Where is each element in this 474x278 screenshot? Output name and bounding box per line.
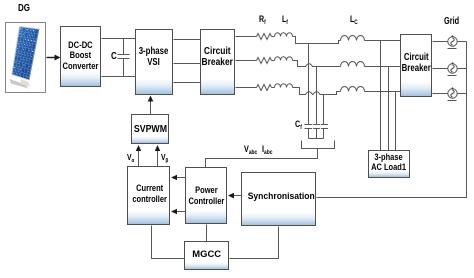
wire grid feedback right bus down bbox=[317, 42, 467, 198]
label C (dc-link capacitor) bbox=[111, 51, 117, 62]
wire phase B jog with hop over phase-A tap bbox=[293, 61, 341, 67]
box SVPWM bbox=[131, 114, 169, 144]
wire phase B to CB2 bbox=[365, 66, 401, 68]
capacitor C bbox=[118, 39, 130, 77]
label Cf bbox=[295, 119, 302, 129]
box 3-phase AC Load1 bbox=[368, 150, 410, 178]
grid ac source A bbox=[448, 35, 458, 48]
wire power controller to MGCC bbox=[206, 225, 208, 242]
wire VSI to CB1 phase a bbox=[174, 39, 201, 41]
inductor Lf phase C bbox=[275, 84, 293, 88]
box synchronisation bbox=[241, 172, 316, 226]
wire+arrow Valpha current controller to SVPWM bbox=[136, 145, 142, 167]
inductor Lc phase B bbox=[341, 62, 365, 67]
wire phase C to CB2 bbox=[365, 91, 401, 93]
label Rf bbox=[259, 14, 266, 24]
wire CB2 to grid source A bbox=[433, 41, 448, 43]
grid ac source B bbox=[448, 62, 458, 75]
wire current controller to MGCC bbox=[152, 226, 185, 259]
label Valpha bbox=[127, 152, 134, 162]
box DC-DC Boost Converter bbox=[60, 26, 101, 87]
box circuit breaker CB1 bbox=[200, 29, 235, 95]
wire load tap phase C bbox=[395, 92, 397, 151]
wire load tap phase A bbox=[380, 41, 382, 151]
panel stand/shadow bbox=[10, 79, 29, 89]
wire+arrow power controller to current controller (upper) bbox=[171, 175, 186, 181]
label Vbeta bbox=[161, 152, 168, 162]
wire grid sources to right bus bbox=[458, 41, 467, 43]
resistor Rf phase B bbox=[257, 58, 272, 64]
capacitor Cf phase C bbox=[321, 125, 328, 139]
label Lc bbox=[350, 14, 358, 24]
wire CB2 to grid source C bbox=[433, 93, 448, 95]
wire tap phase A to Cf bbox=[308, 44, 310, 125]
label DG bbox=[18, 3, 30, 14]
arrow PV to boost converter bbox=[47, 55, 61, 61]
wire Vabc Iabc to power controller bbox=[206, 149, 318, 168]
inductor Lc phase A bbox=[341, 36, 365, 41]
wire dc bus top bbox=[102, 38, 136, 40]
box current controller bbox=[127, 166, 170, 225]
label Iabc bbox=[262, 144, 272, 154]
panel body bbox=[12, 27, 39, 81]
capacitor Cf phase B bbox=[313, 125, 320, 139]
solar panel DG (container box) bbox=[5, 22, 46, 93]
wire phase A jog down bbox=[293, 37, 341, 44]
box circuit breaker CB2 bbox=[400, 34, 432, 97]
wire Cf common bus bbox=[309, 138, 324, 140]
inductor Lf phase A bbox=[275, 33, 293, 37]
resistor Rf phase A bbox=[257, 34, 272, 40]
grid ac source C bbox=[448, 87, 458, 100]
panel grid lines bbox=[13, 27, 38, 79]
wire measurement bracket bbox=[302, 141, 335, 149]
resistor Rf phase C bbox=[257, 85, 272, 91]
wire tap phase C to Cf bbox=[323, 95, 325, 125]
wire load tap phase B bbox=[388, 67, 390, 151]
phase C row: CB1 to Rf bbox=[236, 87, 257, 89]
inductor Lf phase B bbox=[275, 57, 293, 61]
label Grid bbox=[444, 15, 459, 27]
wire VSI to CB1 phase c bbox=[174, 82, 201, 84]
wire phase A to CB2 bbox=[365, 40, 401, 42]
wire tap phase B to Cf bbox=[316, 67, 318, 125]
capacitor Cf phase A bbox=[305, 125, 313, 139]
wire dc bus bottom bbox=[102, 76, 136, 78]
wire+arrow SVPWM to VSI bbox=[148, 96, 154, 115]
label Lf bbox=[282, 14, 288, 24]
wire CB2 to grid source B bbox=[433, 68, 448, 70]
box MGCC bbox=[184, 241, 229, 270]
inductor Lc phase C bbox=[341, 87, 365, 92]
box power controller bbox=[185, 167, 227, 224]
box 3-phase VSI bbox=[135, 29, 173, 95]
wire+arrow power controller to current controller (lower) bbox=[171, 209, 186, 215]
wire VSI to CB1 phase b bbox=[174, 63, 201, 65]
phase B row: CB1 to Rf bbox=[236, 60, 257, 62]
wire MGCC to synchronisation bbox=[230, 227, 279, 259]
label Vabc bbox=[244, 144, 257, 154]
wire phase C jog with hops over phase A and B taps bbox=[293, 88, 341, 95]
phase A row: CB1 to Rf bbox=[236, 36, 257, 38]
wire+arrow synchronisation to power controller bbox=[228, 193, 242, 199]
wire+arrow Vbeta current controller to SVPWM bbox=[155, 145, 161, 167]
